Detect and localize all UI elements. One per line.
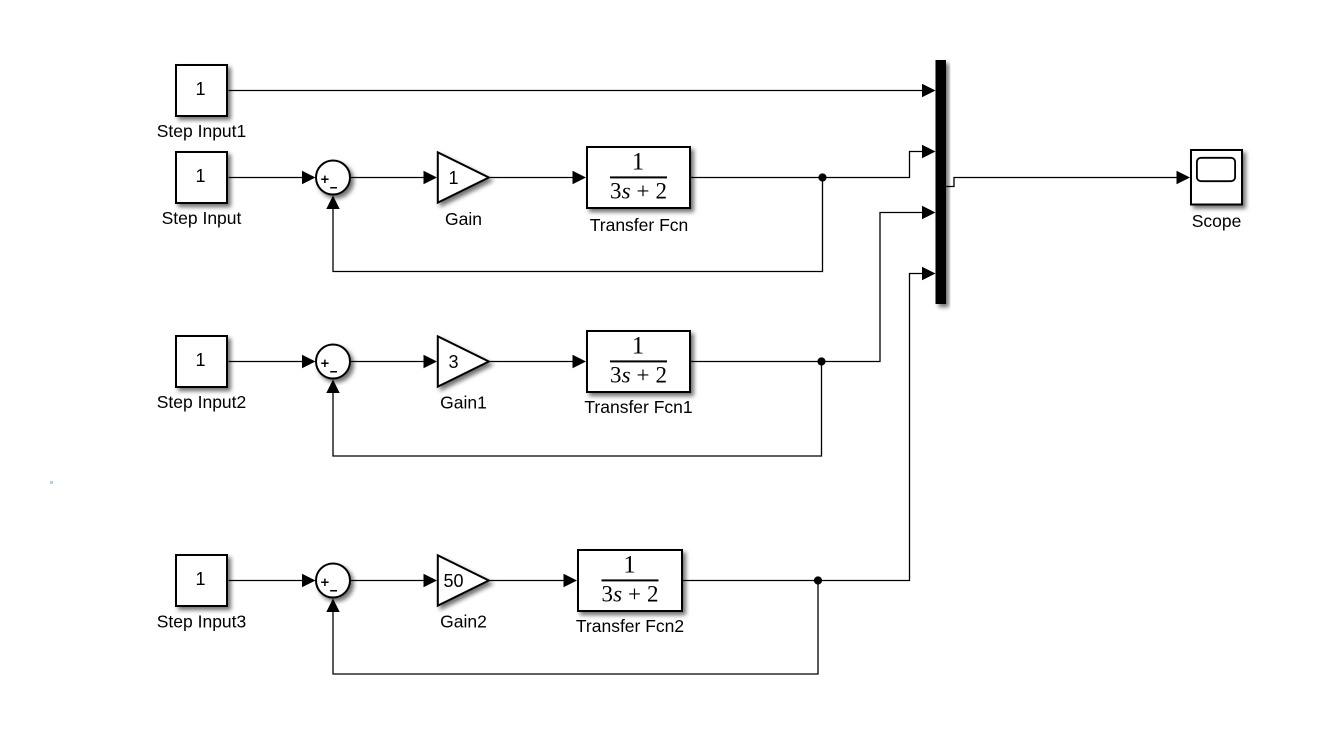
svg-text:1: 1: [195, 569, 205, 589]
svg-text:3s + 2: 3s + 2: [610, 362, 667, 387]
svg-text:Step Input1: Step Input1: [157, 121, 247, 141]
svg-text:Gain1: Gain1: [440, 393, 487, 413]
svg-text:Transfer Fcn1: Transfer Fcn1: [584, 397, 692, 417]
svg-text:Transfer Fcn: Transfer Fcn: [590, 215, 689, 235]
svg-text:Transfer Fcn2: Transfer Fcn2: [576, 616, 684, 636]
svg-text:1: 1: [632, 149, 645, 176]
svg-text:3s + 2: 3s + 2: [602, 581, 659, 606]
svg-text:Scope: Scope: [1192, 211, 1242, 231]
svg-text:1: 1: [623, 552, 636, 579]
svg-text:1: 1: [632, 333, 645, 360]
svg-text:1: 1: [448, 168, 458, 188]
svg-text:50: 50: [443, 571, 463, 591]
svg-text:1: 1: [195, 166, 205, 186]
svg-text:3: 3: [448, 352, 458, 372]
svg-text:1: 1: [195, 79, 205, 99]
svg-text:Step Input2: Step Input2: [157, 392, 247, 412]
svg-text:Gain: Gain: [445, 209, 482, 229]
svg-text:3s + 2: 3s + 2: [610, 178, 667, 203]
svg-text:Step Input: Step Input: [162, 208, 242, 228]
svg-text:Step Input3: Step Input3: [157, 612, 247, 632]
svg-text:1: 1: [195, 350, 205, 370]
svg-text:Gain2: Gain2: [440, 612, 487, 632]
